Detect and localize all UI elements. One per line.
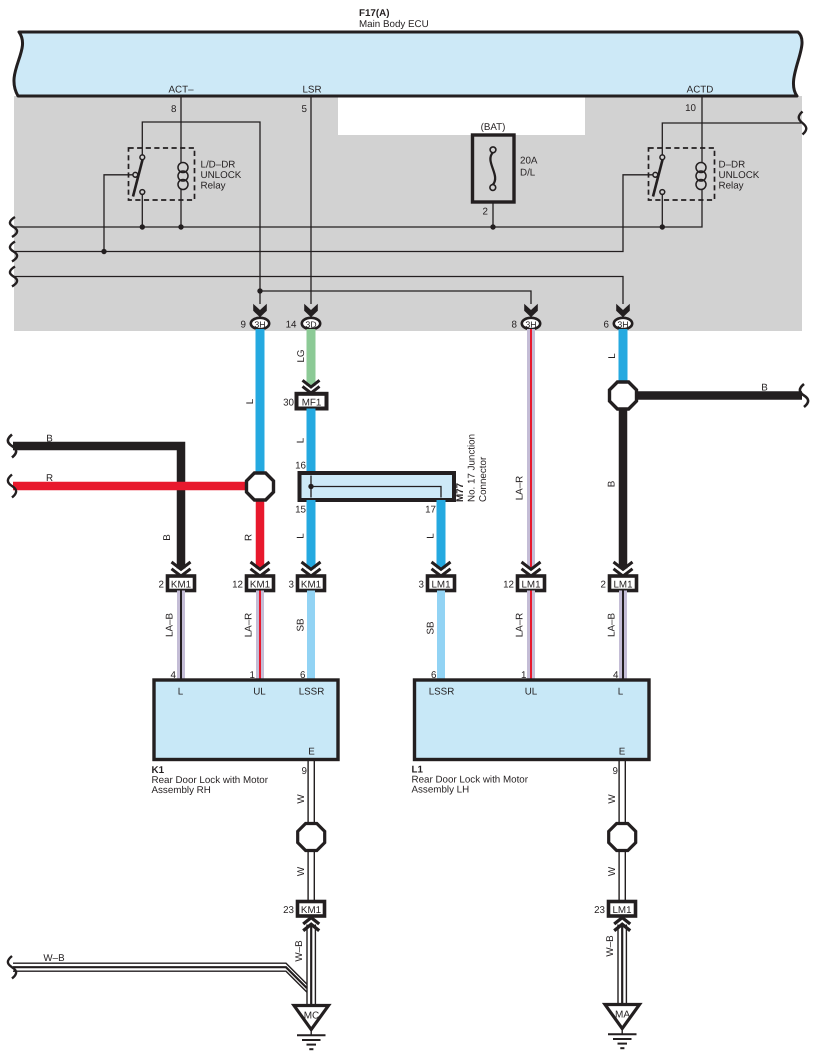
tilde break bus2 left	[10, 242, 17, 262]
wire relay2 switch top to right tilde	[662, 123, 801, 155]
svg-text:8: 8	[171, 104, 177, 115]
connector oval 14 3D	[286, 318, 321, 331]
svg-text:LM1: LM1	[612, 905, 631, 916]
svg-text:LA–R: LA–R	[515, 476, 526, 501]
connector box 2 KM1	[159, 576, 195, 591]
svg-text:3H: 3H	[617, 319, 628, 329]
junction dot bus1/coil1	[178, 224, 183, 229]
svg-text:UNLOCK: UNLOCK	[719, 170, 760, 181]
svg-text:Relay: Relay	[719, 181, 744, 192]
svg-text:L: L	[245, 398, 256, 404]
svg-text:10: 10	[685, 103, 696, 114]
splice octagon MC branch	[298, 824, 325, 851]
svg-text:KM1: KM1	[171, 580, 191, 591]
relay L/D-DR UNLOCK dashed box	[129, 148, 195, 200]
wire W splice to 23-KM1	[308, 851, 314, 902]
svg-text:E: E	[619, 747, 626, 758]
wire ACTD pin10 to relay2 coil	[701, 96, 703, 163]
svg-text:MC: MC	[304, 1011, 320, 1022]
svg-text:ACT–: ACT–	[168, 85, 194, 96]
connector arrow 9-3H	[253, 304, 267, 318]
bus line 1	[13, 190, 702, 228]
relay2 switch	[653, 155, 665, 197]
svg-text:17: 17	[425, 505, 436, 516]
wire L (cyan) 6-3H to splice	[619, 329, 628, 384]
splice octagon L	[610, 382, 637, 409]
svg-text:W: W	[296, 866, 307, 876]
svg-text:2: 2	[483, 207, 488, 218]
svg-text:M77: M77	[455, 482, 466, 502]
svg-text:LSSR: LSSR	[429, 687, 455, 698]
wire B (black) left feed to 2-KM1	[13, 442, 181, 569]
svg-text:LSR: LSR	[302, 85, 321, 96]
svg-text:W–B: W–B	[294, 940, 305, 962]
in-line connector arrow MF1 (double chevron)	[303, 380, 320, 393]
wire fuse pin2 to bus1	[492, 202, 494, 227]
M77 internal junction dot	[308, 484, 313, 489]
svg-text:KM1: KM1	[301, 905, 321, 916]
svg-text:KM1: KM1	[250, 580, 270, 591]
svg-text:ACTD: ACTD	[687, 85, 714, 96]
M77 internal wire	[311, 476, 441, 498]
wire LA-R KM1 to K1 pin1	[244, 591, 261, 681]
svg-text:W–B: W–B	[43, 953, 65, 964]
relay1 coil	[178, 163, 188, 190]
tilde break B left	[8, 435, 16, 458]
in-line connector arrow up (LM1 23)	[614, 918, 630, 931]
svg-text:LA–B: LA–B	[607, 613, 618, 637]
relay D-DR UNLOCK dashed box	[649, 148, 715, 200]
svg-text:3: 3	[289, 580, 295, 591]
svg-text:LA–B: LA–B	[165, 613, 176, 637]
component K1 Rear Door Lock with Motor Assembly RH	[154, 680, 338, 760]
wire 9-3H drop	[259, 291, 261, 304]
ground hatch MC	[297, 1030, 326, 1050]
splice octagon MA branch	[609, 824, 636, 851]
svg-text:(BAT): (BAT)	[481, 122, 506, 133]
wire W (white) L1-E to splice	[619, 760, 625, 903]
in-line connector arrow up (KM1 23)	[303, 918, 319, 931]
connector box 30 MF1	[283, 394, 326, 409]
splice octagon K	[247, 473, 274, 500]
svg-text:L: L	[426, 533, 437, 539]
fuse 20A D/L box	[473, 135, 515, 202]
wire LG (green) 14-3D to MF1	[307, 329, 316, 386]
wire W-B vertical to ground MA	[618, 925, 626, 1005]
svg-text:L: L	[296, 437, 307, 443]
junction dot bus1/switch2	[660, 224, 665, 229]
tilde break W-B left	[8, 956, 16, 979]
svg-text:L: L	[178, 687, 184, 698]
tilde break bus1 left	[10, 217, 17, 237]
junction dot node 9-3H	[257, 288, 262, 293]
wire LA-R 8-3H to 12-LM1	[515, 329, 532, 569]
wire W-B vertical to ground MC	[307, 925, 315, 1006]
svg-text:W–B: W–B	[605, 935, 616, 957]
svg-text:23: 23	[594, 905, 605, 916]
svg-text:Relay: Relay	[201, 181, 226, 192]
connector box 12 KM1	[232, 576, 273, 591]
connector oval 8 3H	[512, 318, 541, 331]
svg-text:3H: 3H	[525, 319, 536, 329]
svg-text:9: 9	[241, 320, 246, 331]
svg-text:UL: UL	[525, 687, 538, 698]
svg-text:3D: 3D	[305, 319, 316, 329]
wire W (white) K1-E to splice	[308, 760, 314, 903]
svg-text:LM1: LM1	[431, 580, 450, 591]
svg-text:F17(A): F17(A)	[359, 8, 389, 19]
svg-text:W: W	[607, 794, 618, 804]
svg-text:14: 14	[286, 320, 297, 331]
svg-text:12: 12	[232, 580, 243, 591]
svg-text:R: R	[244, 534, 255, 541]
ECU internal gray area	[14, 96, 802, 331]
svg-text:MA: MA	[615, 1010, 630, 1021]
svg-text:23: 23	[283, 905, 294, 916]
wire W-B horizontal feed	[13, 963, 307, 992]
svg-text:D/L: D/L	[520, 168, 536, 179]
svg-text:LA–R: LA–R	[515, 613, 526, 638]
relay2 coil	[696, 163, 706, 190]
svg-text:MF1: MF1	[302, 398, 322, 409]
white cutout around fuse label	[338, 96, 585, 135]
bus line 2	[13, 175, 653, 252]
wire R (red) left feed to splice	[13, 482, 250, 491]
wire relay1 switch top to node over	[142, 122, 260, 291]
junction dot bus1/fuse	[490, 224, 495, 229]
ECU F17(A) band (Main Body ECU)	[14, 32, 802, 96]
svg-text:L/D–DR: L/D–DR	[201, 160, 236, 171]
connector arrow 8-3H	[524, 304, 538, 318]
connector box 12 LM1	[503, 576, 544, 591]
svg-text:Connector: Connector	[478, 456, 489, 502]
wire R (red) splice to 12-KM1	[256, 498, 265, 569]
wire L (cyan) M77 pin15 to 3-KM1	[307, 500, 316, 569]
svg-text:2: 2	[159, 580, 164, 591]
svg-text:SB: SB	[296, 618, 307, 632]
svg-text:L: L	[618, 687, 624, 698]
tilde break R left	[8, 475, 16, 498]
svg-text:3H: 3H	[254, 319, 265, 329]
svg-text:LM1: LM1	[521, 580, 540, 591]
connector box 23 LM1	[594, 902, 635, 917]
tilde break bus3 left	[10, 267, 17, 287]
wire pin8 to relay coil	[180, 96, 182, 227]
connector box 23 KM1	[283, 902, 324, 917]
svg-text:5: 5	[302, 104, 308, 115]
svg-text:Assembly LH: Assembly LH	[412, 785, 470, 796]
svg-text:20A: 20A	[520, 156, 538, 167]
svg-text:KM1: KM1	[301, 580, 321, 591]
svg-text:12: 12	[503, 580, 514, 591]
connector box 3 KM1	[289, 576, 325, 591]
svg-text:LSSR: LSSR	[299, 687, 325, 698]
svg-text:B: B	[761, 383, 768, 394]
junction dot bus1/switch1	[140, 224, 145, 229]
wire L (cyan) 9-3H to splice	[256, 329, 265, 473]
svg-text:6: 6	[604, 320, 610, 331]
wire relay2 switch bottom to bus1	[661, 194, 663, 227]
ground MA	[605, 1005, 640, 1029]
wire relay1 middle contact to bus2	[104, 175, 133, 252]
connector box 2 LM1	[601, 576, 637, 591]
junction connector M77 box	[300, 473, 455, 500]
fuse element	[490, 147, 496, 191]
svg-text:B: B	[607, 480, 618, 487]
svg-text:L: L	[607, 353, 618, 359]
connector arrow 6-3H	[616, 304, 630, 318]
component L1 Rear Door Lock with Motor Assembly LH	[415, 680, 650, 760]
wire W splice to 23-LM1	[619, 851, 625, 902]
wire relay1 switch bottom to bus1	[141, 194, 143, 227]
in-line connector arrows KM1/LM1 row	[172, 562, 633, 576]
svg-text:LG: LG	[296, 349, 307, 362]
svg-text:E: E	[308, 747, 315, 758]
svg-text:B: B	[162, 534, 173, 541]
svg-text:3: 3	[419, 580, 425, 591]
wire LA-B LM1 to L1 pin4	[607, 591, 624, 681]
svg-text:W: W	[296, 794, 307, 804]
connector arrow 14-3D	[304, 304, 318, 318]
wire LSR pin5 drop	[310, 96, 312, 304]
connector box 3 LM1	[419, 576, 455, 591]
svg-text:SB: SB	[426, 621, 437, 635]
svg-text:9: 9	[302, 766, 307, 777]
junction dot bus2	[101, 249, 106, 254]
ground hatch MA	[608, 1029, 637, 1049]
connector oval 9 3H	[241, 318, 270, 331]
wire L (cyan) M77 pin17 to 3-LM1	[437, 500, 446, 569]
svg-text:30: 30	[283, 398, 294, 409]
svg-text:R: R	[46, 473, 53, 484]
svg-text:W: W	[607, 866, 618, 876]
relay1 switch	[133, 155, 145, 197]
wire SB KM1 to K1 pin6	[296, 591, 312, 681]
wire LA-B KM1 to K1 pin4	[165, 591, 182, 681]
svg-text:B: B	[46, 434, 53, 445]
connector oval 6 3H	[604, 318, 633, 331]
svg-text:LA–R: LA–R	[244, 613, 255, 638]
svg-text:UNLOCK: UNLOCK	[201, 170, 242, 181]
svg-text:LM1: LM1	[613, 580, 632, 591]
wire B (black) splice to right tilde	[634, 391, 802, 400]
svg-text:D–DR: D–DR	[719, 160, 746, 171]
wire node4 run to 8-3H	[260, 291, 531, 304]
tilde break B right	[800, 384, 808, 407]
svg-text:No. 17 Junction: No. 17 Junction	[467, 434, 478, 502]
svg-text:Assembly RH: Assembly RH	[152, 785, 211, 796]
svg-text:9: 9	[613, 766, 618, 777]
svg-text:2: 2	[601, 580, 606, 591]
svg-text:Main Body ECU: Main Body ECU	[359, 19, 429, 30]
svg-text:8: 8	[512, 320, 518, 331]
svg-text:UL: UL	[253, 687, 266, 698]
wire SB LM1 to L1 pin6	[426, 591, 442, 681]
tilde break right wire y123	[799, 112, 807, 135]
svg-text:15: 15	[295, 505, 306, 516]
svg-text:L: L	[296, 533, 307, 539]
bus line 3	[13, 277, 623, 305]
ground MC	[294, 1006, 329, 1030]
svg-text:16: 16	[295, 461, 306, 472]
wire L (cyan) MF1 to M77 pin16	[307, 409, 316, 475]
wire LA-R LM1 to L1 pin1	[515, 591, 532, 681]
wire B (black) splice to 2-LM1	[619, 407, 628, 569]
